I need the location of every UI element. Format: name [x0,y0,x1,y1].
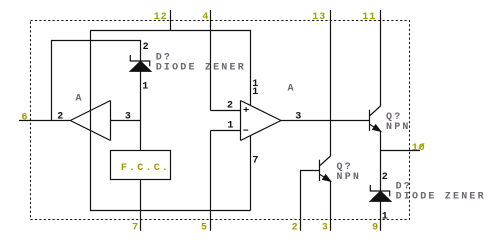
svg-text:1: 1 [252,87,258,98]
wire Q1 emitter [380,131,382,191]
svg-text:3: 3 [125,111,131,122]
svg-text:7: 7 [252,155,258,166]
zener diode D2 [370,185,391,201]
sheet boundary dashed box [31,21,410,220]
svg-text:NPN: NPN [337,172,362,183]
pin 11 stub wire [380,10,382,106]
svg-text:1: 1 [227,121,233,132]
svg-text:2: 2 [227,101,233,112]
pin 2 stub wire [300,171,302,231]
wire zener branch horizontal [51,40,141,42]
pin 5 stub wire [210,131,212,231]
wire op-amp U2 V+ vertical [250,31,252,106]
svg-text:12: 12 [154,12,168,23]
pin 4 stub wire [210,10,212,111]
svg-text:NPN: NPN [386,122,411,133]
wire op-amp U2 V- vertical [250,136,252,211]
svg-text:2: 2 [143,42,149,53]
wire U1 output [111,120,142,122]
svg-text:3: 3 [322,222,329,233]
wire bottom horizontal [90,210,251,212]
svg-text:6: 6 [22,112,29,123]
svg-text:3: 3 [295,111,301,122]
svg-text:4: 4 [202,12,209,23]
pin 12 stub [170,10,172,31]
op-amp U2 triangle [241,101,282,141]
pin 6 input wire [19,120,70,122]
wire feedback vertical [90,31,92,211]
svg-text:5: 5 [201,222,208,233]
wire top horizontal net 12 [90,30,251,32]
pin 13 stub wire [330,10,332,156]
svg-text:1: 1 [142,82,148,93]
wire U2 inverting input [211,130,241,132]
svg-text:2: 2 [292,222,299,233]
svg-text:A: A [76,93,84,104]
svg-text:7: 7 [132,222,139,233]
svg-text:13: 13 [312,12,326,23]
wire zener D1 cathode stub [140,41,142,62]
op-amp U1 triangle [70,101,110,141]
pin 3 stub wire [330,181,332,231]
pin 7 stub wire [140,180,142,231]
zener diode D1 [130,55,151,71]
svg-text:F.C.C.: F.C.C. [121,163,170,174]
svg-text:2: 2 [57,111,63,122]
wire U2 output to Q1 base [281,120,370,122]
transistor Q2 [320,156,331,181]
svg-text:9: 9 [372,222,379,233]
svg-text:DIODE ZENER: DIODE ZENER [396,191,486,202]
svg-text:1: 1 [382,211,388,222]
wire U2 noninverting input [211,110,241,112]
svg-text:A: A [288,83,296,94]
transistor Q1 [370,106,381,131]
op-amp U2 minus sign [243,129,248,131]
wire D1 anode to F.C.C. [140,71,142,150]
wire left branch vertical [51,41,53,121]
wire Q2 base [300,170,320,172]
svg-text:DIODE ZENER: DIODE ZENER [156,63,246,74]
svg-text:11: 11 [362,12,376,23]
svg-text:Q?: Q? [386,112,402,123]
op-amp U2 plus sign [244,107,249,112]
F.C.C. box [111,151,171,180]
pin 10 wire [381,150,421,152]
pin 9 stub wire [380,201,382,231]
svg-text:2: 2 [382,172,388,183]
